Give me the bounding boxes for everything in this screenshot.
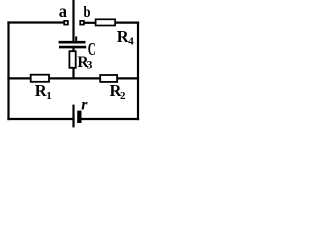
- capacitor C top plate: [59, 41, 86, 44]
- capacitor C bottom plate: [59, 46, 86, 49]
- svg-text:2: 2: [120, 90, 126, 102]
- svg-text:3: 3: [87, 59, 93, 71]
- resistor R4: [96, 19, 116, 25]
- wire capacitor to R3: [72, 47, 74, 51]
- wire top b to R4: [84, 22, 95, 24]
- svg-text:1: 1: [46, 90, 52, 102]
- wire bottom-right rail: [82, 118, 139, 120]
- svg-text:C: C: [88, 39, 96, 59]
- svg-text:r: r: [81, 96, 88, 113]
- resistor R1: [31, 75, 49, 82]
- wire left rail: [7, 23, 9, 120]
- svg-text:b: b: [84, 4, 91, 21]
- wire bottom-left rail: [9, 118, 74, 120]
- wire middle rail right segment: [117, 77, 138, 79]
- resistor R3: [69, 51, 75, 68]
- node b terminal: [80, 21, 84, 25]
- capacitor lead spur: [75, 36, 77, 41]
- resistor R2: [100, 75, 117, 82]
- wire top-left rail: [9, 21, 64, 23]
- wire middle rail center segment: [49, 77, 100, 79]
- wire R3 to middle rail: [72, 68, 74, 79]
- wire R4 to top-right corner: [115, 22, 138, 24]
- svg-text:4: 4: [128, 36, 134, 48]
- wire middle rail left segment: [9, 77, 31, 79]
- wire right rail: [137, 23, 139, 119]
- node a terminal: [64, 21, 68, 25]
- battery long plate: [72, 105, 74, 128]
- battery short plate: [77, 111, 81, 123]
- wire capacitor branch top (to image edge): [72, 0, 74, 41]
- svg-text:a: a: [59, 1, 67, 21]
